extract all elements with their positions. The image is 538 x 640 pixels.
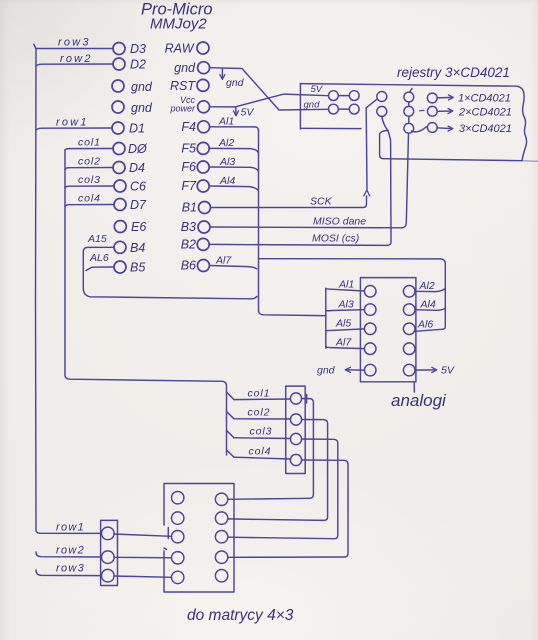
svg-text:col2: col2 — [248, 407, 271, 419]
pin B4 — [114, 241, 126, 253]
svg-text:AL6: AL6 — [89, 252, 109, 264]
wire gnd pin to register — [210, 68, 329, 110]
svg-text:B5: B5 — [130, 261, 145, 275]
matrix box — [164, 484, 234, 593]
curly brace — [518, 87, 527, 161]
svg-text:F6: F6 — [181, 160, 196, 174]
svg-text:Al2: Al2 — [218, 137, 234, 149]
register colA circles — [377, 92, 387, 102]
svg-text:F4: F4 — [181, 120, 196, 134]
svg-text:do matrycy 4×3: do matrycy 4×3 — [187, 607, 294, 624]
svg-text:RST: RST — [170, 79, 196, 93]
MISO vertical — [402, 133, 409, 228]
svg-text:DØ: DØ — [128, 142, 148, 156]
wire faint tail right edge — [522, 160, 538, 163]
svg-text:Al7: Al7 — [215, 255, 232, 267]
analog circles left — [364, 286, 376, 298]
pin D4 — [113, 162, 125, 174]
svg-text:analogi: analogi — [391, 391, 447, 410]
svg-text:col1: col1 — [78, 137, 101, 149]
wire col3 lower — [234, 437, 291, 440]
branch AI7 — [326, 346, 365, 349]
wire col1 lower — [234, 398, 291, 401]
wire F5 — [209, 148, 258, 152]
left row bus vertical — [34, 44, 40, 533]
wire Vcc to register 5V — [210, 94, 329, 107]
col fan stub 2 — [227, 412, 235, 419]
svg-text:Al7: Al7 — [335, 337, 352, 349]
wire row2 bottom — [36, 552, 102, 557]
wire row3 bottom to matrix — [114, 576, 172, 577]
svg-text:5V: 5V — [441, 365, 455, 377]
svg-text:rejestry 3×CD4021: rejestry 3×CD4021 — [397, 65, 510, 80]
svg-text:5V: 5V — [311, 84, 324, 95]
svg-text:F5: F5 — [181, 142, 196, 156]
pin D3 — [113, 43, 125, 55]
pin E6 — [114, 221, 126, 233]
svg-text:1×CD4021: 1×CD4021 — [458, 93, 511, 105]
gnd arrow analog — [346, 369, 364, 371]
branch AI2 right — [415, 289, 445, 292]
col fan stub 1 — [227, 392, 235, 400]
svg-text:D3: D3 — [130, 42, 146, 56]
col connector circles — [290, 393, 301, 404]
pin Vcc power — [198, 101, 210, 113]
wire col2 to matrix — [228, 420, 328, 521]
pin gnd left lower — [112, 101, 124, 113]
wire F4 — [210, 127, 259, 131]
svg-text:Al1: Al1 — [218, 116, 234, 128]
col bus vertical — [65, 150, 227, 455]
analog bottom feeder — [259, 311, 326, 316]
pin RAW — [197, 42, 209, 54]
svg-text:gnd: gnd — [304, 100, 321, 111]
wire col1 to matrix — [228, 399, 314, 500]
svg-text:Al3: Al3 — [338, 299, 354, 311]
analog left bus — [325, 288, 327, 348]
svg-text:2×CD4021: 2×CD4021 — [458, 107, 512, 119]
svg-text:Al5: Al5 — [335, 318, 351, 330]
dash row2 — [420, 109, 425, 111]
register box outline — [300, 84, 518, 87]
register 5V pair — [329, 91, 339, 101]
svg-text:SCK: SCK — [310, 196, 333, 208]
analog bus vertical — [258, 130, 260, 311]
analog right bus lower — [442, 289, 446, 330]
SCK vertical from diagonal — [365, 108, 368, 190]
pin F6 — [197, 161, 209, 173]
svg-text:MOSI (cs): MOSI (cs) — [312, 233, 359, 245]
register lower border wire — [384, 159, 523, 161]
wire SCK — [211, 196, 367, 208]
3pin connector box — [101, 520, 118, 585]
wire MOSI — [209, 244, 387, 245]
wire row1 top — [36, 128, 112, 130]
svg-text:Al2: Al2 — [419, 280, 435, 292]
svg-text:row2: row2 — [56, 545, 85, 557]
analog box — [360, 278, 416, 382]
arrow 5V small — [235, 108, 237, 116]
pin gnd left upper — [112, 80, 124, 92]
svg-text:D2: D2 — [130, 58, 146, 72]
wire AI6 from B5 — [86, 267, 114, 271]
SCK arrowhead — [364, 190, 370, 196]
wire col4 to matrix — [228, 460, 348, 557]
pin F7 — [197, 180, 209, 192]
pin B3 — [198, 221, 210, 233]
wire col4 lower — [234, 457, 291, 459]
pin C6 — [114, 180, 126, 192]
pin D0 — [113, 143, 125, 155]
svg-text:gnd: gnd — [317, 365, 336, 377]
svg-text:col3: col3 — [78, 174, 101, 186]
label Vcc power — [169, 95, 196, 114]
col connector box — [286, 386, 306, 473]
MOSI vertical — [387, 131, 391, 246]
diagonal to colA — [366, 99, 377, 108]
svg-text:col1: col1 — [248, 388, 271, 400]
svg-text:B1: B1 — [182, 201, 197, 215]
svg-text:MISO dane: MISO dane — [313, 216, 366, 228]
svg-text:MMJoy2: MMJoy2 — [150, 16, 207, 33]
svg-text:D1: D1 — [129, 122, 145, 136]
svg-text:Al6: Al6 — [417, 319, 433, 331]
svg-text:B6: B6 — [181, 259, 196, 273]
svg-text:Al4: Al4 — [420, 299, 436, 311]
branch AI6 right — [415, 329, 442, 331]
wire row1 bottom — [40, 532, 102, 534]
wire col4 — [65, 205, 114, 207]
matrix notch — [167, 528, 169, 539]
pin B6 — [197, 260, 209, 272]
analog top wire — [259, 259, 446, 289]
svg-text:D7: D7 — [130, 198, 147, 212]
svg-text:row3: row3 — [56, 563, 85, 575]
wavy link row3 — [412, 127, 427, 132]
svg-text:C6: C6 — [130, 180, 146, 194]
pin gnd right — [198, 62, 210, 74]
pin D2 — [113, 58, 125, 70]
svg-text:E6: E6 — [131, 220, 146, 234]
wire col2 lower — [234, 418, 291, 420]
pin B5 — [114, 261, 126, 273]
branch AI3 — [326, 310, 365, 311]
wire row1 bottom to matrix — [114, 534, 172, 536]
svg-text:row1: row1 — [56, 522, 85, 534]
register gnd pair — [329, 104, 339, 114]
matrix circles left — [172, 492, 184, 504]
svg-text:gnd: gnd — [131, 101, 153, 115]
svg-text:Al1: Al1 — [338, 279, 354, 291]
arrow 2xCD4021 — [437, 110, 452, 112]
wire MISO — [210, 226, 402, 229]
svg-text:A15: A15 — [87, 233, 107, 245]
svg-text:Al3: Al3 — [219, 156, 235, 168]
curve from colA lower — [382, 116, 388, 130]
analog circles right — [403, 286, 415, 298]
wire F6 — [209, 167, 258, 171]
wire B6 AI7 — [209, 266, 256, 269]
col fan stub 3 — [227, 431, 235, 438]
svg-text:B2: B2 — [181, 238, 196, 252]
svg-text:gnd: gnd — [174, 61, 196, 75]
col fan stub 4 — [227, 450, 235, 457]
svg-text:B4: B4 — [130, 241, 145, 255]
col1 tick — [306, 395, 308, 404]
wire row3 top — [36, 48, 113, 50]
arrow gnd small — [221, 69, 223, 79]
svg-text:row2: row2 — [60, 53, 93, 65]
pin F5 — [197, 142, 209, 154]
wire col2 — [65, 168, 113, 170]
svg-text:F7: F7 — [181, 179, 197, 193]
pin B1 — [199, 202, 211, 214]
5V arrow analog — [415, 369, 436, 371]
wire col3 — [65, 186, 114, 188]
wire row2 bottom to matrix — [114, 556, 172, 559]
svg-text:col2: col2 — [78, 156, 101, 168]
svg-text:D4: D4 — [129, 161, 145, 175]
svg-text:5V: 5V — [241, 107, 255, 119]
branch AI4 right — [415, 308, 445, 310]
wire AI5 from B4 — [83, 247, 256, 298]
arrow 1xCD4021 — [437, 96, 452, 99]
svg-text:col3: col3 — [250, 426, 273, 438]
wire row3 bottom — [36, 570, 102, 576]
svg-text:col4: col4 — [249, 446, 272, 458]
wire col1 — [65, 149, 113, 151]
wire row2 top — [36, 64, 113, 66]
register middle column circles — [404, 92, 414, 102]
arrow 3xCD4021 — [437, 127, 452, 130]
svg-text:col4: col4 — [78, 193, 101, 205]
wire F7 — [209, 186, 258, 190]
svg-text:row1: row1 — [56, 117, 89, 129]
svg-text:Al4: Al4 — [219, 175, 235, 187]
register right column circles — [427, 93, 437, 103]
svg-text:gnd: gnd — [131, 80, 153, 94]
svg-text:power: power — [169, 104, 196, 114]
branch AI5 — [326, 329, 365, 331]
svg-text:gnd: gnd — [226, 77, 245, 89]
wire col3 to matrix — [228, 439, 338, 539]
branch AI1 — [326, 288, 365, 291]
pin D7 — [114, 199, 126, 211]
svg-text:RAW: RAW — [165, 42, 195, 56]
pin B2 — [197, 238, 209, 250]
pin F4 — [198, 121, 210, 133]
pin RST — [197, 79, 209, 91]
L branch to lower register border — [380, 131, 388, 159]
svg-text:3×CD4021: 3×CD4021 — [459, 123, 512, 135]
svg-text:row3: row3 — [58, 37, 91, 49]
pin D1 — [112, 122, 124, 134]
3pin circles — [102, 527, 115, 540]
pro-micro right pin column circles — [197, 42, 211, 272]
matrix circles right — [215, 493, 227, 505]
svg-text:B3: B3 — [181, 220, 196, 234]
pro-micro left pin column circles — [112, 43, 126, 274]
